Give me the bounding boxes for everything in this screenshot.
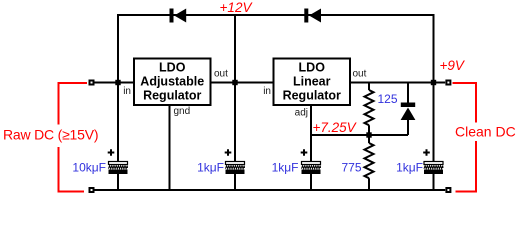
wire R2 top lead	[368, 135, 370, 143]
svg-text:125: 125	[378, 92, 398, 106]
svg-text:+9V: +9V	[440, 58, 466, 73]
svg-text:Regulator: Regulator	[143, 89, 201, 103]
wire U1 out to U2 in	[210, 82, 274, 84]
diode D2 (top rail right)	[304, 9, 321, 23]
wire D3 top lead	[407, 83, 409, 105]
wire U2 out to +9V terminal	[350, 82, 445, 84]
wire middle vertical x=235 (+12V rail to C2 top)	[234, 14, 236, 162]
junction +7.25V node	[366, 132, 371, 137]
capacitor C2 1kuF	[225, 149, 245, 174]
junction +9V node	[431, 80, 436, 85]
svg-text:1kμF: 1kμF	[396, 161, 423, 175]
resistor 775	[365, 143, 374, 178]
terminal clean DC + (top right)	[446, 81, 450, 85]
capacitor C1 10kuF	[108, 149, 128, 174]
wire input terminal to U1 in	[93, 82, 134, 84]
wire bottom ground rail	[93, 189, 445, 191]
terminal clean DC - (bottom right)	[446, 188, 450, 192]
wire U1 gnd to ground rail	[169, 105, 171, 191]
wire middle vertical (C2 bottom to ground rail)	[234, 174, 236, 192]
wire U2 adj down to +7.25V node	[310, 105, 312, 135]
svg-text:1kμF: 1kμF	[197, 161, 224, 175]
wire +7.25V node to C3 top	[310, 135, 312, 162]
wire top +12V rail	[118, 14, 434, 16]
svg-text:gnd: gnd	[174, 106, 191, 117]
wire R2 bottom lead	[368, 178, 370, 191]
junction +12V node	[232, 80, 237, 85]
svg-text:adj: adj	[295, 108, 308, 119]
terminal raw DC - (bottom left)	[90, 188, 94, 192]
node Raw DC bracket (red)	[59, 83, 88, 192]
op-amp U1 LDO Adjustable Regulator box	[134, 59, 211, 106]
svg-text:+7.25V: +7.25V	[313, 120, 358, 135]
resistor 125	[365, 90, 374, 125]
diode D3 (vertical, out to adj node)	[401, 103, 416, 121]
wire right vertical (C4 bottom to ground rail)	[433, 174, 435, 192]
svg-text:in: in	[263, 86, 271, 97]
svg-text:1kμF: 1kμF	[272, 161, 299, 175]
svg-text:out: out	[214, 69, 228, 80]
svg-text:LDO: LDO	[159, 61, 186, 75]
op-amp U2 LDO Linear Regulator box	[274, 59, 351, 106]
wire right vertical x=433.5 (+9V rail drop to C4 top)	[433, 14, 435, 162]
svg-text:Regulator: Regulator	[283, 89, 341, 103]
capacitor C3 1kuF	[301, 149, 321, 174]
svg-text:in: in	[123, 86, 131, 97]
diode D1 (top rail left)	[170, 9, 187, 23]
wire +7.25V horizontal node	[311, 134, 408, 136]
svg-text:Linear: Linear	[293, 75, 331, 89]
svg-text:LDO: LDO	[299, 61, 326, 75]
svg-text:Adjustable: Adjustable	[140, 75, 204, 89]
svg-text:+12V: +12V	[220, 0, 254, 15]
capacitor C4 1kuF	[423, 149, 443, 174]
wire left vertical (raw DC input to C1 top)	[117, 14, 119, 162]
wire left vertical (C1 bottom to ground rail)	[117, 174, 119, 192]
node Clean DC bracket (red)	[453, 83, 477, 192]
svg-text:Raw DC (≥15V): Raw DC (≥15V)	[3, 127, 98, 143]
wire R1 bottom lead	[368, 125, 370, 135]
wire R1 top lead	[368, 83, 370, 91]
svg-text:10kμF: 10kμF	[72, 161, 106, 175]
terminal raw DC + (top left)	[90, 81, 94, 85]
junction raw input node	[115, 80, 120, 85]
svg-text:775: 775	[342, 161, 362, 175]
wire D3 bottom lead	[407, 119, 409, 135]
svg-text:out: out	[353, 69, 367, 80]
wire C3 bottom to ground rail	[310, 174, 312, 192]
svg-text:Clean DC: Clean DC	[455, 124, 516, 140]
